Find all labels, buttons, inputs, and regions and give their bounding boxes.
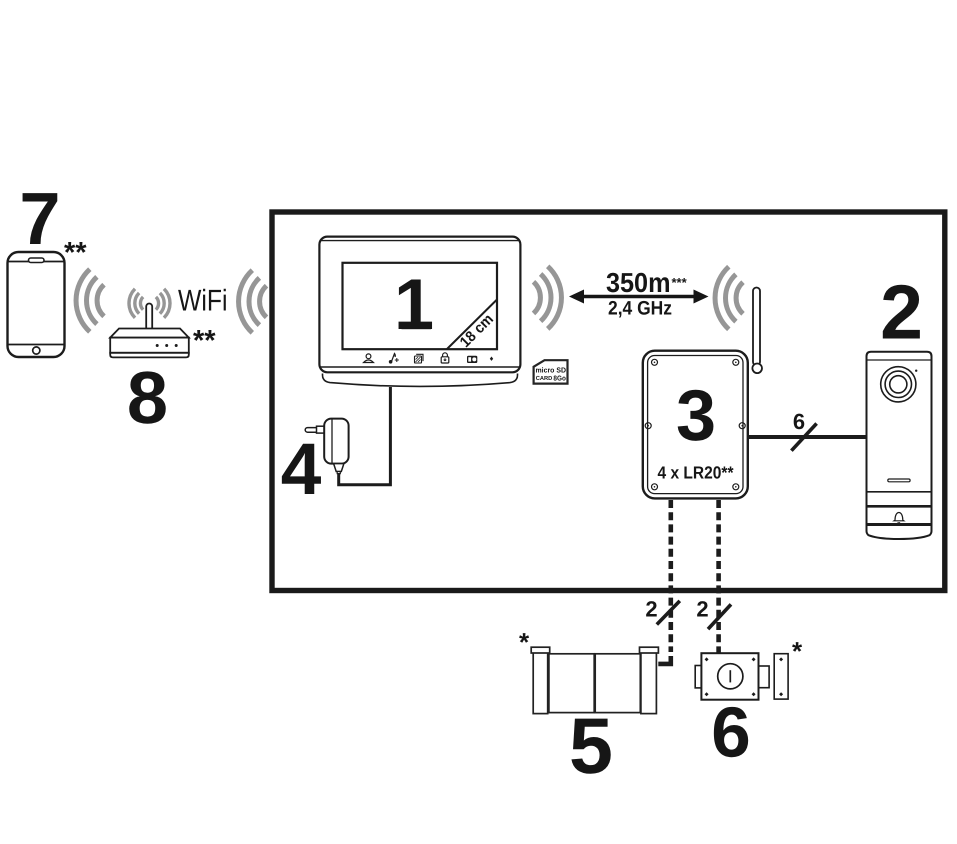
svg-text:8Go: 8Go (553, 374, 566, 382)
wifi arcs right of monitor (534, 266, 562, 329)
wifi arcs left of border (239, 270, 267, 333)
range arrow 350m (569, 290, 709, 304)
dashed wire to gate lock (668, 500, 673, 652)
svg-text:1: 1 (394, 265, 434, 345)
monitor icon lock (441, 353, 449, 363)
dashed wire to lock (716, 500, 721, 653)
monitor icon intercom (467, 356, 477, 363)
lock screw dots (705, 657, 784, 696)
slash on wire 6 (791, 424, 816, 451)
monitor icon gallery (415, 354, 424, 363)
svg-text:2: 2 (880, 270, 923, 356)
wire monitor to adapter (339, 387, 391, 485)
battery box 3 (643, 351, 748, 499)
monitor stand base (323, 374, 518, 387)
router antenna arcs (129, 289, 170, 318)
monitor icon person (364, 354, 374, 363)
svg-text:micro SD: micro SD (536, 366, 567, 375)
gate 5 (531, 647, 658, 713)
smartphone 7 (8, 252, 65, 357)
svg-text:WiFi: WiFi (178, 285, 228, 318)
big border rectangle (272, 212, 945, 591)
wifi arcs right of phone (76, 269, 104, 332)
door station 2 (867, 352, 932, 539)
door bell icon (894, 513, 904, 524)
svg-text:**: ** (193, 325, 216, 357)
micro SD card (534, 360, 568, 383)
svg-text:*: * (519, 627, 530, 657)
monitor 1 body (319, 237, 520, 373)
monitor icon dot (490, 357, 493, 361)
wire 6 to door station (748, 435, 867, 439)
monitor screen (343, 263, 498, 349)
svg-text:*: * (792, 636, 803, 666)
svg-text:350m: 350m (606, 267, 671, 298)
svg-text:3: 3 (676, 376, 716, 456)
svg-text:2,4 GHz: 2,4 GHz (608, 298, 672, 320)
svg-text:2: 2 (645, 597, 657, 622)
wifi arcs left of antenna (715, 267, 743, 330)
router leds (156, 344, 178, 347)
svg-text:4 x LR20**: 4 x LR20** (658, 463, 734, 483)
svg-text:4: 4 (281, 429, 322, 510)
svg-text:***: *** (672, 275, 688, 290)
svg-text:2: 2 (696, 597, 708, 622)
svg-text:**: ** (64, 237, 87, 269)
surface lock 6 (695, 653, 788, 700)
monitor icon note (389, 354, 398, 363)
svg-text:CARD: CARD (536, 375, 553, 382)
wifi router 8 (110, 304, 189, 358)
svg-text:8: 8 (127, 356, 168, 439)
svg-text:5: 5 (569, 701, 613, 790)
antenna of receiver (752, 288, 762, 374)
svg-text:6: 6 (793, 409, 805, 434)
svg-text:6: 6 (711, 694, 751, 773)
adapter 4 (305, 419, 348, 474)
18 cm diagonal (447, 300, 497, 351)
svg-text:7: 7 (19, 177, 60, 260)
box screws (645, 359, 745, 490)
